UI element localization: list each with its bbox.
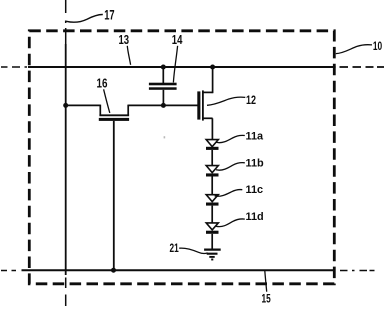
junction: capacitor top on rail — [161, 65, 166, 70]
node line 10 (horizontal dash-dot, left stub) — [1, 66, 27, 68]
svg-text:11d: 11d — [246, 211, 264, 223]
diode 11d — [206, 223, 219, 250]
svg-text:17: 17 — [104, 7, 115, 23]
svg-text:12: 12 — [246, 93, 256, 107]
leader for label 14 — [173, 46, 177, 83]
transistor 12 — [197, 90, 212, 120]
node line 15 (horizontal dash-dot, left stub) — [1, 270, 16, 272]
svg-text:11b: 11b — [246, 157, 265, 169]
wire: bottom rail (solid) — [22, 269, 336, 271]
diode 11a — [206, 140, 219, 166]
leader for label 13 — [127, 46, 130, 65]
leader for label 11a — [216, 135, 245, 142]
wire: gate net (middle segment to transistor 12) — [128, 104, 197, 106]
leader for label 21 — [179, 248, 207, 253]
svg-text:11c: 11c — [246, 184, 264, 196]
scan speck — [164, 136, 166, 138]
leader for label 11c — [215, 190, 243, 197]
wire: top rail (solid) — [28, 66, 336, 68]
capacitor 14 — [149, 67, 177, 106]
leader for label 12 — [207, 97, 245, 105]
leader for label 15 — [265, 271, 267, 292]
node line 10 (horizontal dashed, right stub) — [340, 66, 384, 68]
leader for label 17 — [66, 14, 103, 22]
wire: source of transistor 12 to diode chain — [211, 118, 213, 139]
leader for label 10 — [336, 45, 372, 54]
junction: transistor 16 gate on bottom rail — [111, 268, 116, 273]
svg-text:11a: 11a — [246, 131, 265, 143]
svg-text:13: 13 — [119, 32, 130, 47]
leader for label 11d — [216, 219, 245, 227]
svg-text:21: 21 — [170, 241, 180, 255]
leader for label 16 — [104, 89, 110, 113]
diode 11c — [206, 195, 219, 223]
boundary box (dashed rectangle) — [29, 31, 334, 284]
wire: drain of transistor 12 to top rail — [212, 67, 214, 93]
svg-text:14: 14 — [172, 32, 183, 47]
junction: gate net on vertical rail — [63, 103, 68, 108]
node line 15 (horizontal dash-dot, right stub) — [340, 270, 375, 272]
wire: vertical rail at x=65.7 (solid part of section line) — [65, 44, 67, 275]
junction: capacitor bottom on gate wire — [161, 103, 166, 108]
section line 17 (vertical dash-dot) — [65, 0, 67, 306]
wire: gate lead of transistor 16 down to bottom rail — [113, 121, 115, 270]
junction: drain on top rail — [210, 65, 215, 70]
svg-text:15: 15 — [262, 292, 272, 306]
svg-text:16: 16 — [97, 76, 108, 91]
ground 21 — [204, 250, 221, 260]
leader for label 11b — [216, 163, 245, 170]
diode 11b — [206, 166, 219, 195]
svg-text:10: 10 — [373, 39, 382, 53]
transistor 16 — [99, 105, 129, 121]
wire: gate net at y=105.4 (left segment) — [66, 104, 101, 106]
